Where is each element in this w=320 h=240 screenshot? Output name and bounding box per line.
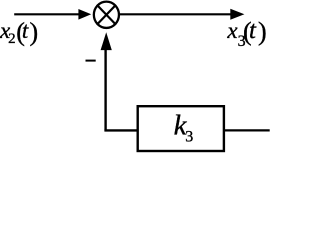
wire: input line into summing junction <box>14 13 80 15</box>
summing junction circle <box>94 2 119 28</box>
arrowhead: output arrow toward x3(t) <box>230 9 244 20</box>
arrowhead: input into summing junction <box>78 9 91 20</box>
wire: vertical feedback line <box>104 49 106 131</box>
summing junction X diagonal 2 <box>97 5 116 25</box>
summing junction X diagonal 1 <box>97 5 116 25</box>
gain block k3 rectangle <box>138 106 224 151</box>
arrowhead: feedback arrow into bottom of summing junction <box>101 32 112 50</box>
svg-text:k3: k3 <box>174 109 194 145</box>
svg-text:x2(t): x2(t) <box>0 17 38 47</box>
minus sign at summing junction <box>86 60 96 62</box>
wire: horizontal connector from feedback line to k3 block <box>104 129 138 131</box>
wire: output line of k3 block <box>224 129 270 131</box>
svg-text:x3(t): x3(t) <box>226 17 266 50</box>
wire: output of summing junction to the right <box>120 13 232 15</box>
